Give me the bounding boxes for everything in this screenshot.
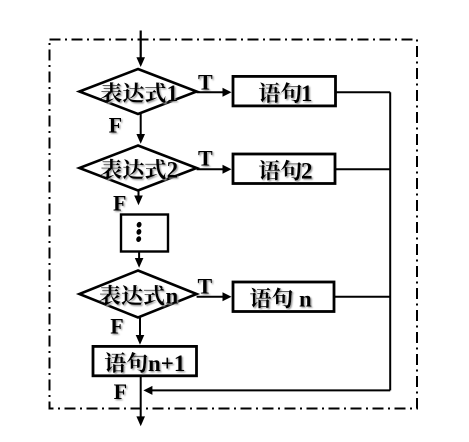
connector B2 to right rail	[335, 168, 390, 170]
decision diamond D2 表达式2	[79, 146, 196, 191]
svg-text:T: T	[198, 274, 213, 299]
connector Bn to right rail	[334, 296, 390, 298]
svg-text:2: 2	[167, 158, 179, 183]
arrow ellipsis box to D3	[138, 252, 140, 259]
decision diamond D3 表达式n	[79, 271, 196, 318]
process box Bn 语句n	[233, 282, 334, 312]
svg-text:F: F	[113, 191, 126, 216]
process box B1 语句1	[233, 76, 336, 106]
svg-text:n: n	[299, 286, 312, 311]
label 语句n+1	[105, 351, 186, 376]
exit arrowhead	[136, 416, 145, 426]
process box B2 语句2	[233, 154, 335, 184]
exit line through bottom border	[140, 376, 142, 417]
label 语句n	[250, 286, 312, 311]
svg-text:F: F	[109, 112, 122, 137]
label T3	[198, 274, 213, 299]
label 表达式n	[100, 284, 179, 309]
dash-dot outer frame	[50, 40, 418, 409]
label F4 exit	[114, 379, 127, 404]
label 表达式1	[101, 81, 178, 106]
svg-text:1: 1	[301, 81, 313, 106]
rail return to spine with left arrow	[151, 389, 391, 391]
label F3	[110, 314, 123, 339]
connector B1 to right rail	[336, 91, 391, 93]
svg-text:n+1: n+1	[148, 351, 185, 376]
label T1	[198, 70, 213, 95]
vertical ellipsis dots	[135, 221, 142, 242]
connector D2 to B2	[197, 168, 224, 170]
short arrow D2 down	[138, 191, 140, 197]
svg-text:F: F	[110, 314, 123, 339]
svg-text:1: 1	[167, 81, 179, 106]
label T2	[198, 146, 213, 171]
label 表达式2	[101, 158, 178, 183]
decision diamond D1 表达式1	[79, 69, 196, 114]
label 语句2	[259, 159, 313, 184]
ellipsis box	[121, 215, 168, 252]
label F2	[113, 191, 126, 216]
svg-text:n: n	[166, 284, 179, 309]
label F1	[109, 112, 122, 137]
right rail vertical	[389, 92, 391, 390]
svg-text:T: T	[198, 70, 213, 95]
arrow D1 to D2	[140, 114, 142, 135]
connector D3 to Bn	[197, 296, 224, 298]
entry arrow into flowchart	[140, 31, 142, 59]
svg-text:2: 2	[301, 159, 313, 184]
svg-text:T: T	[198, 146, 213, 171]
svg-text:F: F	[114, 379, 127, 404]
arrow D3 to Bn1	[139, 318, 141, 336]
connector D1 to B1	[197, 91, 224, 93]
process box Bn1 语句n+1	[93, 346, 197, 375]
label 语句1	[259, 81, 313, 106]
